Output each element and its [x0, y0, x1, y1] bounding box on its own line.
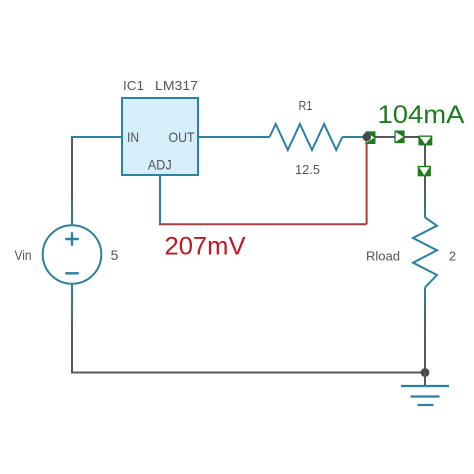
ground node dot	[421, 368, 430, 377]
svg-text:IC1: IC1	[123, 78, 144, 93]
wire left vertical gray-to-teal	[71, 137, 73, 226]
wire below source teal-to-gray	[71, 284, 73, 373]
svg-text:ADJ: ADJ	[148, 156, 172, 172]
wire OUT to R1 (teal)	[198, 136, 270, 138]
ground stub	[424, 373, 426, 386]
ground symbol bars	[401, 386, 449, 405]
svg-text:Vin: Vin	[15, 247, 32, 263]
current marker arrow 2 (right)	[394, 131, 404, 144]
resistor R1 zigzag	[270, 124, 343, 150]
voltage source minus sign	[65, 272, 79, 274]
svg-text:12.5: 12.5	[295, 162, 320, 177]
wire corner down gray-to-teal	[424, 136, 426, 218]
svg-text:Rload: Rload	[366, 249, 400, 264]
svg-text:5: 5	[111, 247, 119, 263]
wire ADJ net vertical (red)	[366, 137, 368, 224]
svg-text:OUT: OUT	[169, 129, 195, 145]
wire Rload bottom teal-to-gray	[424, 287, 426, 372]
svg-text:2: 2	[449, 249, 456, 264]
op-amp U1 LM317 body	[122, 98, 198, 175]
svg-text:R1: R1	[299, 98, 313, 113]
node junction dot	[363, 133, 371, 141]
voltage source V1 circle	[43, 225, 102, 284]
current marker arrow 4 (down)	[418, 166, 431, 177]
svg-text:IN: IN	[127, 129, 139, 145]
wire bottom horizontal (gray)	[71, 372, 425, 374]
voltage source plus sign	[65, 232, 79, 246]
wire ADJ net horizontal (red)	[159, 223, 367, 225]
svg-text:207mV: 207mV	[165, 233, 246, 261]
wire R1 to node (teal)	[342, 136, 364, 138]
wire node to corner (gray)	[367, 136, 425, 138]
svg-text:104mA: 104mA	[378, 101, 465, 129]
resistor Rload zigzag	[413, 218, 437, 288]
svg-text:LM317: LM317	[155, 78, 198, 93]
wire IN horizontal (teal)	[71, 136, 122, 138]
current marker arrow 3 (down)	[418, 136, 432, 146]
wire ADJ drop (teal)	[159, 175, 161, 224]
current marker arrow 1 (right)	[365, 131, 375, 144]
